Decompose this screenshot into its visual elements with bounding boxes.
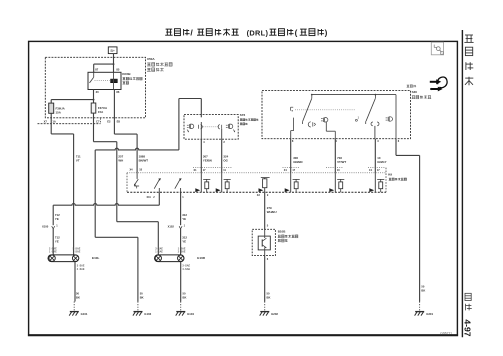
K9 input load 324: [216, 173, 231, 192]
svg-text:15A: 15A: [98, 110, 104, 114]
svg-text:G96711: G96711: [440, 332, 452, 336]
module K9 connector dotted segments: [193, 166, 386, 168]
ground G101: [69, 292, 88, 316]
headlamp E10R housing: [155, 255, 185, 262]
svg-text:K9: K9: [388, 173, 392, 177]
wire 1868 BN/WT label: [139, 155, 149, 163]
svg-text:C7: C7: [96, 120, 100, 124]
wire 703 VT/WT: [335, 139, 346, 173]
main border frame: [28, 41, 458, 335]
K9 high-beam switch right: [175, 178, 182, 192]
S30 left contact glyphs: [308, 118, 328, 127]
K9 high-beam switch left: [154, 178, 161, 192]
svg-text:3 -SAE: 3 -SAE: [77, 264, 85, 267]
svg-text:WH: WH: [118, 159, 123, 163]
page-turn arrows icon: [430, 77, 447, 91]
K9 bottom tick labels: [147, 194, 269, 199]
svg-text:86: 86: [116, 90, 119, 94]
wire 312 YE labels: [182, 213, 187, 243]
fuse box connector strip: [38, 118, 101, 124]
wire 324 OG: [222, 129, 229, 173]
svg-text:1 -SAE: 1 -SAE: [49, 251, 57, 254]
svg-text:2 -SAE: 2 -SAE: [178, 251, 186, 254]
connector X100: [42, 225, 58, 229]
svg-text:OG: OG: [223, 159, 228, 163]
sidebar text 照明: [465, 293, 472, 310]
K9 output to B10B: [259, 178, 270, 193]
svg-text:15A: 15A: [56, 110, 62, 114]
wire 279 to B10B: [265, 192, 277, 229]
svg-text:X100: X100: [42, 225, 49, 229]
wire S30 pin6 to ground G301: [396, 139, 420, 302]
svg-text:50: 50: [183, 292, 186, 296]
module K9 label: [388, 173, 406, 181]
wire 712 high beam left: [53, 192, 159, 225]
svg-text:YE: YE: [182, 240, 186, 244]
relay KR4B label: [122, 72, 142, 84]
svg-text:85: 85: [116, 68, 119, 72]
headlamp E10R high beam bulb: [178, 255, 184, 261]
S76 contact stub: [200, 122, 202, 139]
svg-text:GN/BN: GN/BN: [293, 160, 302, 164]
svg-text:BK: BK: [421, 289, 425, 293]
page title 前照灯/日间行车灯 (DRL) 示意图(前照灯): [165, 28, 327, 38]
relay switch contact: [90, 72, 110, 83]
E10L pin labels: [49, 248, 85, 272]
svg-text:50: 50: [140, 292, 143, 296]
wire 257 to E10R low beam: [117, 222, 159, 255]
svg-text:YE: YE: [182, 217, 186, 221]
switch S30 dashed box: [262, 90, 411, 138]
wire 1868 from relay coil: [114, 134, 137, 173]
switch S30 label: [412, 90, 432, 99]
corner zoom icon: [431, 42, 443, 55]
sidebar rule line: [461, 30, 463, 337]
switch S76 label: [240, 113, 259, 125]
wire B+ down: [113, 54, 115, 65]
headlamp E10L housing: [48, 255, 79, 262]
wire 257 WH label: [118, 155, 123, 163]
svg-text:G301: G301: [426, 312, 433, 316]
svg-text:KR4B: KR4B: [122, 72, 131, 76]
fuse F37UA 15A: [91, 103, 108, 114]
sidebar page number 4-97: [463, 319, 473, 336]
svg-text:E2: E2: [107, 120, 111, 124]
sensor B10B dashed box: [252, 229, 275, 255]
battery feed B+ box: [108, 47, 117, 54]
S30 right pivot circle: [355, 118, 359, 122]
wire E10R to ground: [180, 262, 182, 302]
headlamp E10L low beam bulb: [72, 255, 78, 261]
svg-text:BK: BK: [267, 296, 271, 300]
S30 right blade: [366, 95, 376, 124]
K9 input load 703: [329, 173, 344, 192]
S30 left pivot contact: [291, 107, 294, 111]
S30 left blade: [302, 95, 311, 124]
svg-text:30: 30: [96, 90, 99, 94]
bottom right drawing code: [440, 332, 452, 336]
svg-text:B10B: B10B: [278, 230, 287, 234]
svg-text:BK: BK: [76, 296, 80, 300]
node branch to relay pins: [94, 63, 115, 65]
ground G102: [133, 292, 152, 316]
svg-text:4 -SAE: 4 -SAE: [182, 268, 190, 271]
K9 input load 307: [195, 173, 210, 192]
K9 input load 306: [285, 173, 300, 192]
wire relay 86 down: [113, 90, 115, 135]
svg-text:1 -SAE: 1 -SAE: [155, 251, 163, 254]
wire 711 from F36UA: [51, 113, 73, 255]
wire B10B to ground: [265, 256, 269, 302]
svg-text:WH/BU: WH/BU: [267, 210, 277, 214]
wire to relay pin 87: [93, 64, 95, 72]
svg-text:): ): [325, 29, 328, 38]
svg-text:G102: G102: [144, 312, 151, 316]
svg-text:G202: G202: [271, 312, 278, 316]
svg-text:3 -SAE: 3 -SAE: [182, 264, 190, 267]
svg-text:G101: G101: [81, 312, 88, 316]
svg-text:1 -SAE: 1 -SAE: [73, 251, 81, 254]
headlamp E10R label: [197, 256, 206, 260]
S30 pin6 drop: [395, 95, 397, 139]
svg-text:4-97: 4-97: [463, 319, 473, 336]
wire 312 to E10R: [180, 229, 182, 255]
fuse box X50A dashed outline: [45, 57, 145, 118]
svg-text:X7: X7: [44, 120, 48, 124]
S76 ground loop wire: [95, 99, 201, 302]
sensor B10B label: [278, 230, 298, 242]
svg-text:BK: BK: [183, 296, 187, 300]
relay coil: [111, 72, 118, 89]
svg-text:(: (: [295, 29, 298, 38]
S30 pin labels: [292, 139, 400, 143]
S30 mid pin stub: [326, 122, 335, 139]
svg-text:87: 87: [95, 68, 98, 72]
svg-text:X102: X102: [168, 225, 175, 229]
K9 input load 10: [369, 173, 384, 192]
wire 712 YE labels: [55, 213, 60, 243]
K9 pin tick labels: [130, 168, 381, 172]
svg-text:GN/GY: GN/GY: [377, 160, 386, 164]
S30 right contact pair: [371, 117, 393, 139]
connector X102: [168, 225, 186, 229]
fuse F36UA 15A: [49, 103, 66, 114]
svg-text:E10R: E10R: [197, 256, 206, 260]
svg-text:S30: S30: [412, 90, 418, 94]
svg-text:(DRL): (DRL): [247, 28, 269, 37]
wire 10 GN/GY: [375, 139, 386, 173]
svg-text:B+: B+: [110, 49, 115, 53]
svg-text:E10L: E10L: [92, 256, 100, 260]
svg-text:BK: BK: [140, 296, 144, 300]
wire to relay pin 85: [113, 64, 115, 72]
S30 mechanical link dotted: [295, 109, 355, 111]
svg-text:X50A: X50A: [147, 57, 156, 61]
S30 common rail: [311, 94, 396, 96]
sensor B10B inner box: [258, 236, 270, 250]
ground G202: [260, 292, 279, 316]
svg-text:50: 50: [267, 292, 270, 296]
E10R pin labels: [155, 248, 190, 272]
relay pin labels 87 85 30 86: [95, 68, 120, 94]
svg-text:YE: YE: [55, 240, 59, 244]
sidebar text 车身系统: [464, 35, 473, 85]
fuse box X50A label: [147, 57, 172, 71]
ground G104: [176, 292, 195, 316]
svg-text:S76: S76: [240, 113, 246, 117]
wire relay 30 to fuses: [51, 90, 94, 104]
svg-text:50: 50: [76, 292, 79, 296]
S76 right contact: [226, 124, 235, 132]
svg-text:E8: E8: [117, 120, 121, 124]
wire E10L to ground: [74, 262, 76, 302]
headlamp E10L high beam bulb: [49, 255, 55, 261]
sensor B10B transistor symbol: [262, 229, 266, 255]
ground G301: [415, 285, 434, 316]
relay KR4B box: [88, 72, 121, 89]
wire 257 from F37UA: [94, 113, 117, 222]
connector strip labels X7 1A C7 E2 E8: [44, 120, 121, 124]
wire 312 high beam right: [180, 192, 182, 225]
S76 center contacts: [199, 125, 222, 129]
wire 307 YE/BN: [201, 139, 211, 173]
svg-text:YE: YE: [55, 217, 59, 221]
S76 left contact: [187, 124, 194, 132]
svg-text:BN/WT: BN/WT: [139, 159, 149, 163]
svg-text:YE/BN: YE/BN: [203, 159, 212, 163]
wire 711 VT label: [76, 155, 81, 163]
svg-text:50: 50: [421, 285, 424, 289]
headlamp E10R low beam bulb: [155, 255, 161, 261]
svg-text:1A: 1A: [52, 120, 55, 124]
svg-text:VT/WT: VT/WT: [337, 160, 346, 164]
svg-text:G104: G104: [187, 312, 194, 316]
K9 low-beam driver symbol: [134, 173, 139, 189]
switch S76 dashed box: [184, 115, 238, 140]
S30 left contact column: [291, 118, 294, 139]
headlamp E10L label: [92, 256, 100, 260]
wire 306 GN/BN: [291, 139, 303, 173]
icon caption tiny text: [407, 85, 417, 88]
svg-text:2 -SAE: 2 -SAE: [77, 268, 85, 271]
module K9 dashed band: [127, 168, 386, 193]
wire 712 to E10L: [52, 229, 54, 255]
svg-text:VT: VT: [76, 159, 80, 163]
svg-text:641: 641: [147, 196, 152, 199]
